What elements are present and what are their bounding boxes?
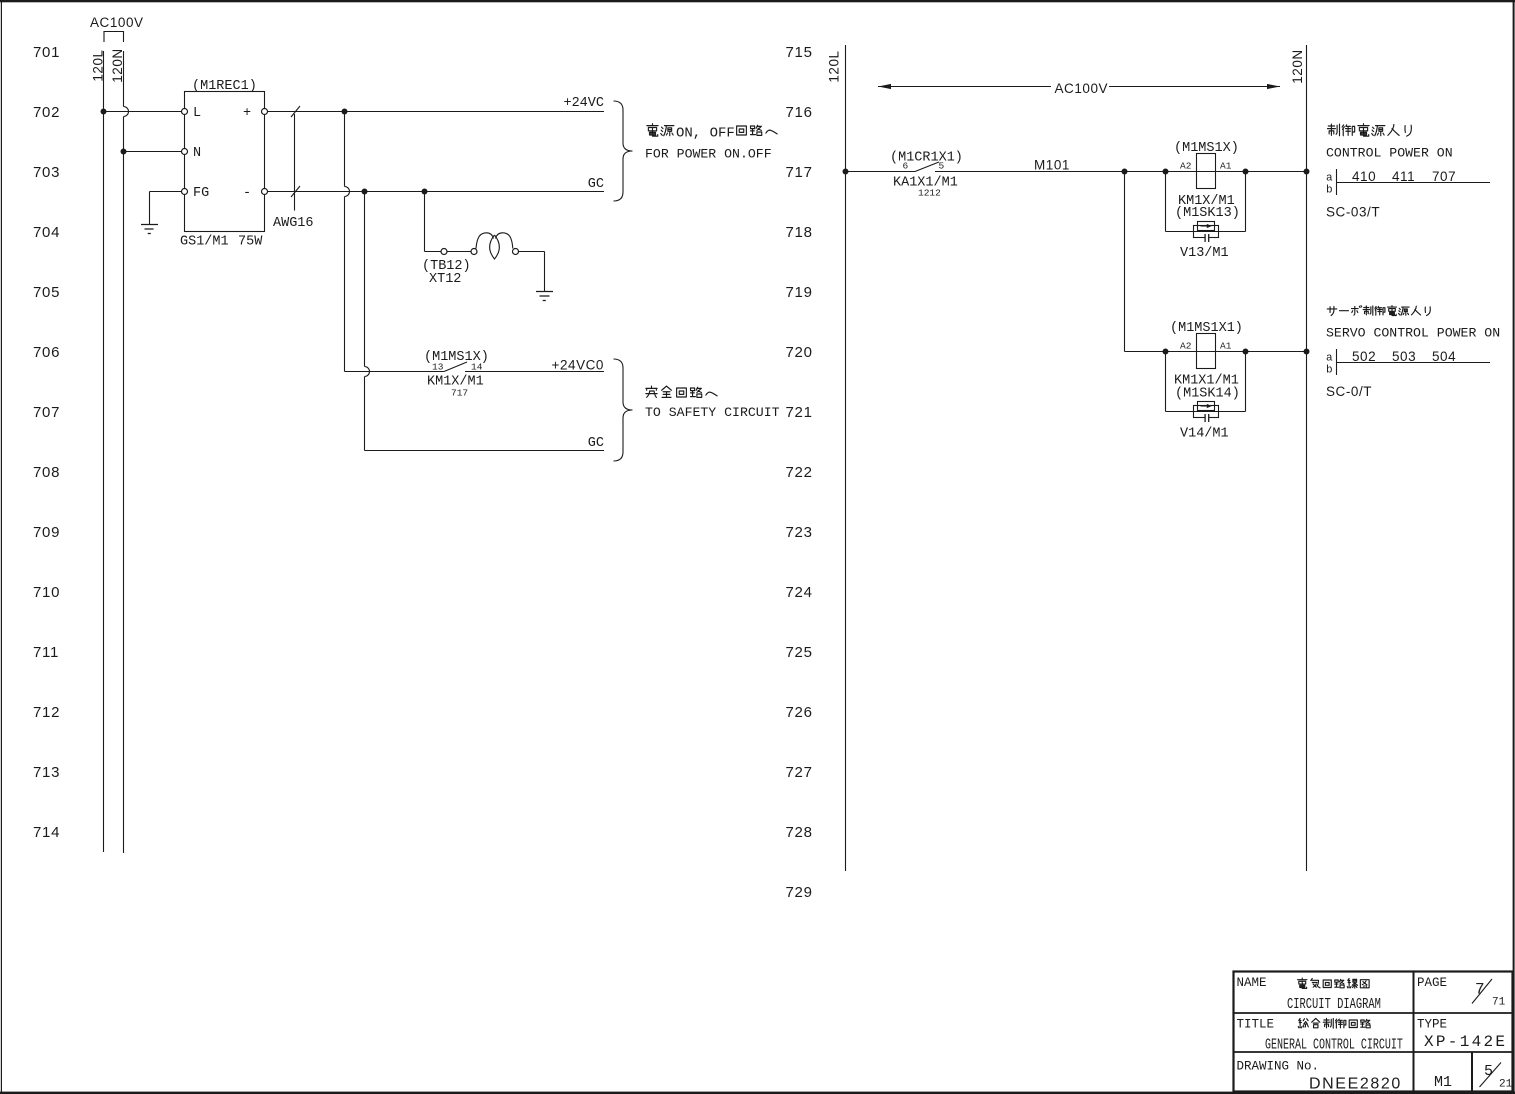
brace to power on/off circuit [614,101,633,201]
note 安全回路へ [646,386,717,397]
junction rung720 x1165 [1163,349,1169,355]
svg-text:709: 709 [33,524,60,541]
contact KM1X/M1 blade [444,362,467,372]
svg-text:FOR POWER ON.OFF: FOR POWER ON.OFF [645,147,772,162]
junction on 120N [121,149,127,155]
svg-text:a: a [1326,353,1333,365]
svg-text:a: a [1326,173,1333,185]
svg-text:14: 14 [471,362,483,373]
contact KA1X1/M1 blade [915,162,939,172]
junction on 120L at 702 [101,109,107,115]
svg-text:DRAWING No.: DRAWING No. [1237,1060,1320,1074]
svg-text:705: 705 [33,284,60,301]
svg-text:V14/M1: V14/M1 [1180,427,1229,442]
svg-text:TYPE: TYPE [1417,1018,1447,1032]
svg-text:714: 714 [33,824,60,841]
svg-text:6: 6 [903,161,909,172]
svg-text:SERVO CONTROL POWER ON: SERVO CONTROL POWER ON [1326,326,1500,341]
svg-text:120L: 120L [91,49,106,81]
wire XT12-1 to XT12-2 [447,251,471,253]
wire GC down to XT12 [424,192,426,252]
svg-text:(M1CR1X1): (M1CR1X1) [890,151,963,166]
wire to XT12 terminal [425,251,442,253]
svg-text:75W: 75W [238,235,263,250]
svg-text:410: 410 [1352,169,1376,184]
right rung number column 715-729 [786,44,813,901]
svg-text:A1: A1 [1220,341,1232,352]
svg-text:701: 701 [33,44,60,61]
svg-text:ON, OFF: ON, OFF [676,126,735,142]
junction rung717 x1124 [1122,169,1128,175]
net 120N right bus wire [1306,45,1308,871]
svg-text:FG: FG [193,186,209,201]
net 120L left bus wire [103,51,105,852]
AC100V dimension arrow line [878,86,1280,88]
svg-text:GS1/M1: GS1/M1 [180,235,229,250]
svg-text:503: 503 [1392,349,1416,364]
junction rung717 at 120L [843,169,849,175]
net 120N left bus wire (hop over 702 wire) [124,51,129,853]
terminal circle - [262,189,268,195]
svg-text:V13/M1: V13/M1 [1180,246,1229,261]
note サーボ制御電源入り [1327,306,1430,316]
svg-text:TITLE: TITLE [1237,1018,1275,1032]
svg-text:NAME: NAME [1237,976,1267,990]
border frame bottom [0,1092,1515,1094]
svg-text:CONTROL POWER ON: CONTROL POWER ON [1326,146,1453,161]
svg-text:AWG16: AWG16 [273,216,314,231]
svg-text:21: 21 [1499,1079,1513,1091]
brace to safety circuit [614,359,633,461]
junction on - wire at x424 [422,189,428,195]
varistor V14 branch wires [1166,352,1246,412]
note 制御電源入り [1328,124,1412,136]
svg-text:M1: M1 [1434,1074,1452,1091]
svg-text:5: 5 [939,161,945,172]
svg-text:710: 710 [33,584,60,601]
svg-text:717: 717 [451,388,468,399]
svg-text:A1: A1 [1220,161,1232,172]
ground symbol at XT12 [536,292,553,301]
left rung number column 701-714 [33,44,60,841]
junction rung717 x1165 [1163,169,1169,175]
svg-text:502: 502 [1352,349,1376,364]
svg-text:716: 716 [786,104,813,121]
svg-text:721: 721 [786,404,813,421]
wire rung 720 [1125,351,1307,353]
net 120L right bus wire [845,45,847,871]
svg-text:727: 727 [786,764,813,781]
svg-text:SC-03/T: SC-03/T [1326,205,1380,220]
svg-text:(M1SK13): (M1SK13) [1175,206,1240,221]
svg-text:504: 504 [1432,349,1456,364]
svg-text:726: 726 [786,704,813,721]
border frame left [1,2,2,1092]
svg-text:-: - [243,186,251,201]
junction rung717 at 120N [1304,169,1310,175]
svg-text:(M1MS1X): (M1MS1X) [1174,141,1239,156]
svg-text:717: 717 [786,164,813,181]
svg-text:712: 712 [33,704,60,721]
wire rung 717 down to rung 720 [1124,172,1126,352]
svg-text:A2: A2 [1180,161,1192,172]
svg-text:PAGE: PAGE [1417,976,1447,990]
svg-text:711: 711 [33,644,59,661]
svg-text:722: 722 [786,464,813,481]
svg-text:XP-142E: XP-142E [1424,1033,1507,1051]
svg-text:723: 723 [786,524,813,541]
svg-text:724: 724 [786,584,813,601]
svg-text:AC100V: AC100V [1055,81,1109,96]
terminal circle FG [182,189,188,195]
junction on - wire at x364 [362,189,368,195]
AWG16 leader line [294,114,296,211]
svg-text:713: 713 [33,764,60,781]
junction rung717 x1245 [1243,169,1249,175]
svg-text:13: 13 [432,362,444,373]
svg-text:A2: A2 [1180,341,1192,352]
border frame top [0,0,1515,2]
svg-text:(M1MS1X1): (M1MS1X1) [1170,321,1243,336]
svg-text:+24VC0: +24VC0 [552,358,604,373]
bracket under AC100V [104,32,124,43]
svg-text:120N: 120N [1290,49,1305,83]
wire 120N to N terminal [124,151,182,153]
coil KM1X/M1 box [1197,154,1216,189]
title block outer box [1234,972,1513,1092]
svg-text:GC: GC [588,436,604,451]
wire lower GC rung [365,450,605,452]
varistor V13 branch wires [1166,172,1246,232]
svg-text:+: + [243,106,251,121]
svg-text:71: 71 [1492,997,1506,1009]
ferrite loop symbol [476,233,513,259]
svg-text:M101: M101 [1034,158,1070,173]
svg-text:120L: 120L [827,50,842,82]
svg-text:728: 728 [786,824,813,841]
svg-text:719: 719 [786,284,813,301]
varistor V13/M1 symbol [1194,226,1219,238]
svg-text:707: 707 [33,404,60,421]
wire +24VC0 left segment [345,371,445,373]
svg-text:+24VC: +24VC [563,96,604,111]
title 電気回路線図 [1298,978,1370,988]
terminal circle L [182,109,188,115]
svg-text:DNEE2820: DNEE2820 [1309,1076,1402,1093]
wire GC down to lower GC rung (hop over +24VC0) [365,192,370,451]
arrowhead left [878,84,891,89]
svg-text:725: 725 [786,644,813,661]
svg-text:GENERAL CONTROL CIRCUIT: GENERAL CONTROL CIRCUIT [1265,1037,1403,1053]
svg-text:702: 702 [33,104,60,121]
svg-text:704: 704 [33,224,60,241]
wire FG to ground [150,192,182,225]
title block dividers [1414,972,1473,1093]
wire rung 717 left [846,171,916,173]
svg-text:729: 729 [786,884,813,901]
wire +24VC down to +24VC0 rung (hop over GC) [345,112,350,372]
varistor V14/M1 symbol [1194,406,1219,418]
terminal circle + [262,109,268,115]
svg-text:b: b [1326,365,1333,377]
wire 120L to L terminal (rung 702) [104,111,182,113]
svg-text:L: L [193,106,201,121]
svg-text:708: 708 [33,464,60,481]
svg-text:CIRCUIT DIAGRAM: CIRCUIT DIAGRAM [1287,995,1381,1012]
note 電源ON,OFF回路へ [647,124,777,142]
terminal circle XT12-3 [513,249,519,255]
wire + output to +24VC [268,111,605,113]
svg-text:703: 703 [33,164,60,181]
svg-text:411: 411 [1392,169,1415,184]
svg-text:XT12: XT12 [429,272,461,287]
terminal circle N [182,149,188,155]
title 総合制御回路 [1298,1018,1370,1028]
svg-text:1212: 1212 [918,188,941,199]
terminal circle XT12-2 [471,249,477,255]
wire +24VC0 right segment [465,371,604,373]
svg-text:(M1SK14): (M1SK14) [1175,387,1240,402]
svg-text:AC100V: AC100V [90,15,144,30]
terminal circle XT12-1 [441,249,447,255]
rectifier GS1/M1 box [185,92,265,232]
junction rung720 x1245 [1243,349,1249,355]
wire gauge slash on - wire [291,186,300,197]
svg-text:GC: GC [588,177,604,192]
coil KM1X1/M1 box [1197,334,1216,369]
svg-text:715: 715 [786,44,813,61]
arrowhead right [1267,84,1280,89]
svg-text:N: N [193,146,201,161]
svg-text:718: 718 [786,224,813,241]
svg-text:120N: 120N [110,48,125,82]
svg-text:b: b [1326,185,1333,197]
svg-text:706: 706 [33,344,60,361]
svg-text:707: 707 [1432,169,1456,184]
ground symbol at FG [141,225,158,234]
svg-text:720: 720 [786,344,813,361]
wire gauge slash on + wire [291,106,300,117]
svg-text:TO SAFETY CIRCUIT: TO SAFETY CIRCUIT [645,405,780,420]
svg-text:SC-0/T: SC-0/T [1326,384,1372,399]
junction rung720 at 120N [1304,349,1310,355]
wire rung 717 right [935,171,1307,173]
wire XT12-3 to ground [519,252,545,292]
wire - output to GC [268,191,605,193]
border frame right [1513,2,1515,1092]
junction on + wire at x344 [342,109,348,115]
